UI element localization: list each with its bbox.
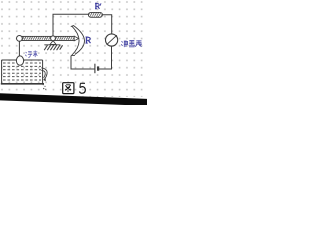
ground hatching <box>44 45 62 50</box>
wire from R' right and down to meter <box>102 15 111 34</box>
spout arrowhead <box>43 78 46 81</box>
wire from pivot up and right to R' <box>53 14 89 36</box>
pivot pin circle <box>51 36 56 41</box>
liquid (dashed rows) <box>3 63 41 80</box>
label R' <box>95 3 101 9</box>
lever bar (hatched) <box>22 36 74 40</box>
float rod <box>18 41 20 56</box>
galvanometer (oil gauge meter) <box>106 34 118 46</box>
lever end circle (hinge to float rod) <box>17 36 23 42</box>
wiper arrow on lever end <box>74 36 78 41</box>
black scan bar at bottom <box>0 93 147 105</box>
wire from meter down and left to battery <box>99 46 112 69</box>
caption digit 5 <box>80 83 86 93</box>
label 浮标 <box>25 51 37 58</box>
droplets <box>43 84 47 90</box>
ground line under pivot <box>44 44 60 46</box>
wire from battery left and up to rheostat arc <box>71 56 95 69</box>
caption 图 5 <box>63 83 74 94</box>
meter needle <box>107 35 117 45</box>
float <box>16 56 23 65</box>
battery <box>94 64 96 73</box>
faucet spout on tank wall <box>41 68 47 80</box>
pivot support triangle <box>50 41 56 45</box>
resistor R' <box>88 12 102 17</box>
label R <box>86 37 91 43</box>
rheostat R curved strip <box>71 25 85 55</box>
tank <box>2 59 43 61</box>
label 油量表 <box>121 40 142 47</box>
